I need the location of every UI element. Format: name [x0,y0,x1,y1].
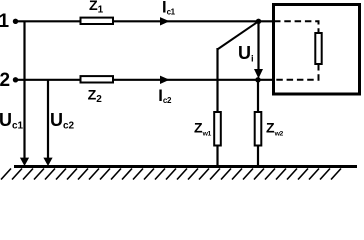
node 2 terminal dot [13,77,18,82]
impedance inside box [315,33,321,64]
wire Uc1 measurement line [23,21,25,158]
equipment box [274,5,360,95]
current arrow Ic1 [160,17,170,25]
svg-text:1: 1 [0,11,10,32]
junction dot line 2 / Zw2 [255,77,260,82]
wire Zw2 branch upper [257,80,259,113]
dashed wire top inside box [274,21,319,33]
wire Zw1 branch upper [216,48,218,113]
current arrow Ic2 [160,76,170,84]
wire line 2 [16,79,274,81]
arrowhead Uc2 down [43,158,52,166]
wire line 1 [16,20,274,22]
voltage arrow Ui line [257,21,259,70]
ground hatching [1,169,341,180]
wire diagonal to Zw1 branch [218,21,259,49]
wire Uc2 measurement line [47,80,49,158]
impedance Zw2 [255,112,262,146]
wire Zw1 branch lower [216,145,218,167]
resistor Z2 [81,76,114,82]
dashed wire bottom inside box [274,64,319,80]
node dot on line 1 [256,19,261,24]
svg-text:2: 2 [0,70,10,91]
wire Zw2 branch lower [257,145,259,167]
ground line [14,165,357,168]
arrowhead Uc1 down [20,158,29,166]
node 1 terminal dot [13,19,18,24]
arrowhead Ui down [254,69,263,79]
impedance Zw1 [214,112,221,146]
resistor Z1 [81,18,114,24]
